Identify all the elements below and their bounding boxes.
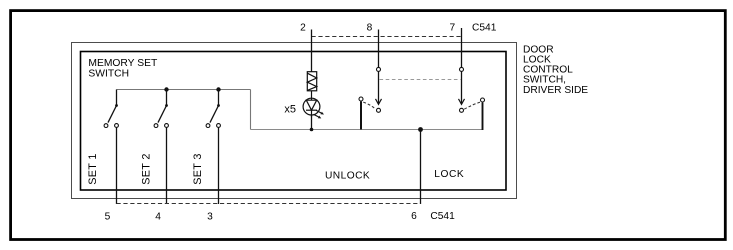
- top bus wire of SET switches: [117, 89, 251, 91]
- svg-text:DRIVER SIDE: DRIVER SIDE: [523, 85, 588, 96]
- svg-text:8: 8: [367, 22, 373, 33]
- wire pin 6 down: [420, 130, 422, 205]
- svg-text:6: 6: [411, 211, 417, 222]
- svg-text:5: 5: [105, 211, 111, 222]
- unlock dashed travel arc: [363, 102, 376, 109]
- emission arrows: [316, 110, 321, 113]
- wire corner down: [250, 90, 252, 130]
- main bus wire: [251, 129, 483, 131]
- svg-text:2: 2: [300, 22, 306, 33]
- switch SET 2: [154, 87, 169, 204]
- svg-text:UNLOCK: UNLOCK: [325, 171, 370, 182]
- svg-text:SET 2: SET 2: [140, 153, 152, 185]
- small circle on pin 7 wire: [460, 67, 464, 71]
- outer component box: [72, 43, 517, 199]
- wire pin 7 down to arrow: [461, 28, 463, 104]
- LED D1: [303, 91, 324, 119]
- lock switch pole (circle + thick bar): [481, 98, 485, 102]
- svg-text:x5: x5: [284, 103, 296, 115]
- lock dashed travel arc: [464, 102, 480, 109]
- svg-text:3: 3: [207, 211, 213, 222]
- wire LED to bus: [311, 115, 313, 130]
- unlock contact circle: [377, 108, 381, 112]
- unlock switch pole (circle + thick bar): [359, 97, 363, 101]
- inner component box (memory set switch boundary): [81, 52, 507, 191]
- connector C541 top dashed line: [312, 36, 462, 38]
- connector C541 bottom dashed line: [117, 203, 421, 205]
- svg-text:SET 1: SET 1: [87, 153, 99, 185]
- svg-text:C541: C541: [472, 22, 497, 33]
- resistor R (boxed zigzag): [307, 72, 316, 91]
- lock contact circle: [460, 108, 464, 112]
- switch SET 1: [104, 90, 118, 205]
- svg-text:SET 3: SET 3: [192, 153, 204, 185]
- wire pin 2 down to resistor: [311, 30, 313, 72]
- junction dot bus/LED: [310, 128, 314, 132]
- wire pin 8 down to arrow: [378, 30, 380, 104]
- unlock actuator arrowhead: [376, 99, 382, 105]
- switch SET 3: [206, 87, 221, 204]
- svg-text:4: 4: [155, 211, 161, 222]
- svg-text:SWITCH: SWITCH: [88, 69, 129, 80]
- lock actuator arrowhead: [459, 99, 465, 105]
- svg-text:C541: C541: [430, 211, 455, 222]
- svg-text:MEMORY SET: MEMORY SET: [88, 58, 158, 69]
- svg-text:LOCK: LOCK: [434, 169, 464, 180]
- svg-text:7: 7: [449, 22, 455, 33]
- dashed link between pin 8 and pin 7 wires: [380, 79, 461, 81]
- svg-text:SWITCH,: SWITCH,: [523, 74, 566, 85]
- small circle on pin 8 wire: [377, 67, 381, 71]
- junction dot bus/pin6: [418, 127, 423, 132]
